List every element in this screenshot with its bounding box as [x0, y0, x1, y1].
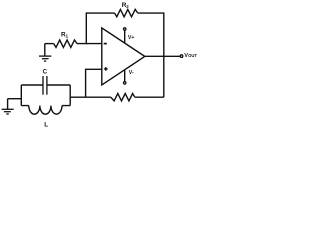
svg-text:V-: V- — [129, 70, 134, 76]
wire tank right edge — [69, 85, 71, 106]
node V- terminal — [124, 70, 134, 84]
ground (tank ground, left) — [2, 99, 22, 114]
wire bottom-right segment — [135, 96, 164, 98]
wire output — [145, 55, 180, 57]
inductor L — [29, 106, 62, 129]
wire tank left edge — [20, 85, 22, 106]
svg-text:OUT: OUT — [188, 53, 197, 58]
resistor R2 — [115, 2, 138, 17]
svg-text:1: 1 — [66, 33, 69, 38]
wire tank bottom edge (split by inductor) — [21, 105, 70, 107]
wire non-inverting input tap — [86, 69, 102, 97]
wire R1 to inverting input — [77, 43, 102, 45]
wire tank top edge (split by capacitor) — [21, 84, 70, 86]
svg-text:V+: V+ — [128, 35, 134, 41]
wire ground to R1 — [45, 43, 54, 45]
resistor R1 — [54, 31, 77, 47]
node VOUT terminal — [180, 53, 197, 59]
capacitor C — [43, 69, 48, 95]
wire top-right segment + right vertical — [138, 13, 164, 97]
resistor R3 (unlabeled feedback resistor) — [111, 94, 135, 101]
svg-text:C: C — [43, 69, 48, 76]
node V+ terminal — [124, 28, 135, 43]
ground (input ground near R1) — [39, 44, 51, 62]
svg-text:2: 2 — [126, 4, 129, 9]
op-amp U1 — [102, 28, 145, 85]
wire feedback left vertical + top-left segment — [86, 13, 114, 44]
wire bottom wire from tank to resistor — [70, 96, 111, 98]
svg-text:L: L — [44, 121, 48, 128]
